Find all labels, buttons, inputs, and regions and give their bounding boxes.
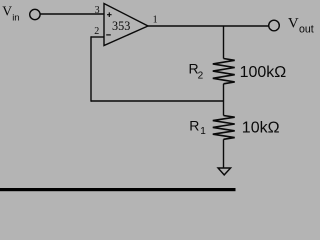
wire output node down to R2 [223,26,225,59]
wire feedback horizontal to divider node [91,100,224,102]
svg-text:1: 1 [153,15,158,26]
svg-text:3: 3 [95,5,100,16]
svg-text:in: in [12,13,19,24]
wire feedback vertical [90,36,92,101]
wire pin 2 stub [91,36,104,38]
resistor R1 zigzag [213,116,235,140]
wire between R2 and R1 [223,84,225,116]
wire input: Vin terminal to pin 3 [40,13,104,15]
svg-text:1: 1 [200,126,206,137]
resistor R2 zigzag [213,59,235,84]
svg-text:100kΩ: 100kΩ [240,64,287,81]
ground symbol [218,168,231,175]
node Vin terminal circle [30,9,40,19]
svg-text:2: 2 [94,26,99,37]
bottom rule bar [0,188,236,191]
wire R1 to ground [223,139,225,168]
svg-text:V: V [2,4,12,19]
op-amp minus symbol (inverting input) [106,34,111,36]
svg-text:V: V [288,16,299,32]
svg-text:R: R [189,117,199,133]
svg-text:353: 353 [112,19,130,33]
wire output: apex to Vout terminal [148,25,269,27]
svg-text:out: out [299,24,314,36]
op-amp plus symbol (non-inverting input) [107,12,112,17]
node Vout terminal circle [269,20,280,31]
op-amp U1 (353) triangle [104,4,148,46]
svg-text:2: 2 [198,71,204,82]
svg-text:10kΩ: 10kΩ [242,119,280,136]
